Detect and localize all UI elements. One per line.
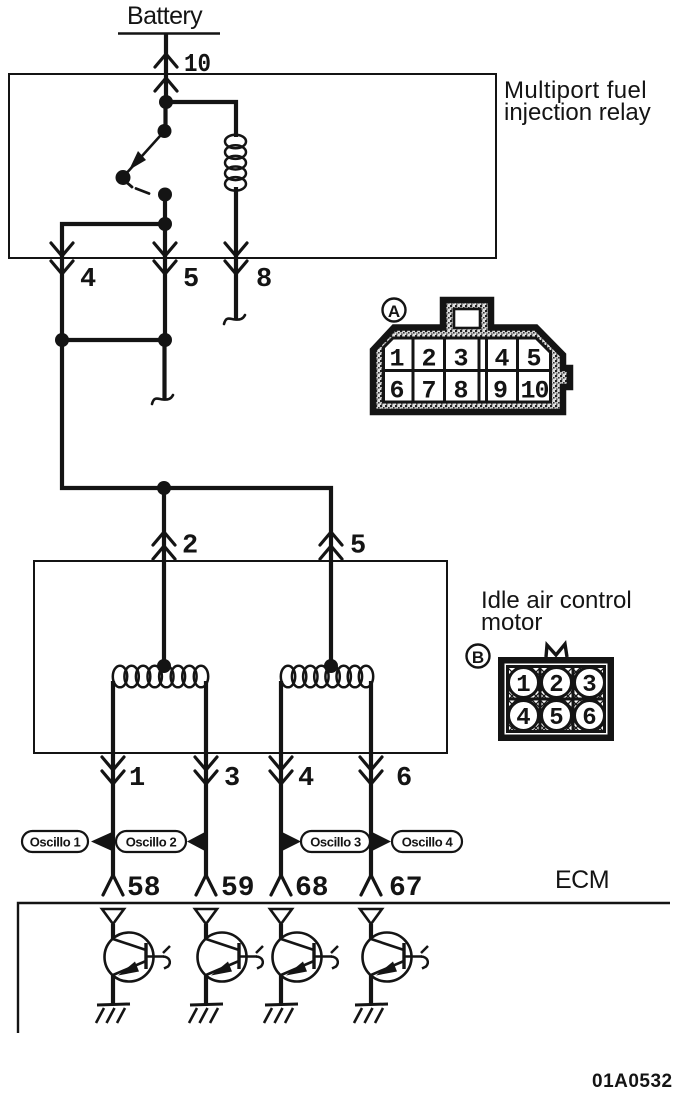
connector A key slot bbox=[454, 309, 480, 328]
wire relay pin 4 below box bbox=[60, 244, 64, 340]
IAC motor coil 2 bbox=[281, 666, 295, 688]
input triangle for Q2 bbox=[195, 909, 217, 924]
svg-text:5: 5 bbox=[526, 345, 541, 374]
svg-text:4: 4 bbox=[494, 345, 509, 374]
relay switch pivot tail bbox=[125, 181, 132, 187]
relay switch output contact bbox=[158, 188, 172, 202]
svg-text:4: 4 bbox=[298, 764, 314, 794]
svg-text:2: 2 bbox=[549, 672, 563, 699]
relay switch armature with arrow bbox=[124, 131, 165, 176]
ECM pin fork terminal 68 bbox=[271, 860, 291, 895]
svg-text:5: 5 bbox=[183, 265, 199, 295]
svg-text:A: A bbox=[388, 302, 400, 321]
connector chevrons IAC pin 4 bbox=[270, 757, 292, 770]
svg-text:01A0532: 01A0532 bbox=[592, 1071, 673, 1092]
node coil 1 centre tap bbox=[157, 659, 171, 673]
transistor Q2 bbox=[198, 924, 264, 1005]
ECM pin fork terminal 58 bbox=[103, 860, 123, 895]
node junction left y340 bbox=[55, 333, 69, 347]
wire into IAC coil 1 bbox=[162, 561, 166, 666]
svg-text:ECM: ECM bbox=[555, 866, 609, 894]
ground for Q4 bbox=[354, 1004, 388, 1023]
svg-text:Battery: Battery bbox=[127, 2, 203, 30]
svg-text:1: 1 bbox=[129, 764, 145, 794]
idle air control motor box bbox=[34, 561, 447, 753]
ground for Q3 bbox=[264, 1004, 298, 1023]
connector chevrons relay pin 8 bbox=[225, 243, 247, 256]
svg-text:3: 3 bbox=[582, 672, 596, 699]
connector B callout circle bbox=[467, 645, 490, 668]
connector chevrons IAC pin 6 bbox=[360, 757, 382, 770]
svg-text:6: 6 bbox=[389, 377, 404, 406]
node coil 2 centre tap bbox=[324, 659, 338, 673]
input triangle for Q4 bbox=[360, 909, 382, 924]
oscilloscope point label Oscillo 3 bbox=[283, 833, 301, 851]
connector B pin circles bbox=[509, 668, 539, 698]
relay box: Multiport fuel injection relay bbox=[9, 74, 496, 258]
transistor Q4 bbox=[363, 924, 429, 1005]
node junction mid y340 bbox=[158, 333, 172, 347]
wire switch to output node bbox=[163, 195, 167, 225]
wire IAC pin 6 to ECM bbox=[369, 753, 373, 876]
svg-text:4: 4 bbox=[80, 265, 96, 295]
svg-text:B: B bbox=[472, 648, 484, 667]
wire 8 termination pigtail bbox=[224, 315, 245, 324]
transistor Q3 bbox=[273, 924, 339, 1005]
connector chevrons relay pin 5 bbox=[154, 243, 176, 256]
connector chevrons IAC pin 1 bbox=[102, 757, 124, 770]
svg-text:Oscillo 3: Oscillo 3 bbox=[310, 835, 361, 850]
wire to relay pin 5 bbox=[163, 224, 167, 244]
coil 1 right leg bbox=[204, 681, 208, 753]
transistor Q1 bbox=[105, 924, 171, 1005]
wire to relay pin 4 bbox=[62, 224, 165, 244]
oscilloscope point label Oscillo 4 bbox=[373, 833, 391, 851]
input triangle for Q3 bbox=[270, 909, 292, 924]
svg-text:59: 59 bbox=[221, 873, 255, 904]
wire joining pins 4 and 5 bbox=[62, 338, 165, 342]
wire relay pin 5 below box bbox=[163, 244, 167, 340]
coil 1 left leg bbox=[111, 681, 115, 753]
ECM pin fork terminal 59 bbox=[196, 860, 216, 895]
svg-text:3: 3 bbox=[224, 764, 240, 794]
svg-text:68: 68 bbox=[295, 873, 329, 904]
oscilloscope point label Oscillo 1 bbox=[22, 831, 88, 852]
connector chevrons pin 10 bbox=[155, 54, 177, 67]
connector chevrons IAC pin 5 bbox=[320, 532, 342, 545]
svg-text:6: 6 bbox=[396, 764, 412, 794]
connector B key notch bbox=[546, 644, 567, 657]
connector B body bbox=[498, 657, 614, 741]
svg-text:58: 58 bbox=[127, 873, 161, 904]
relay switch dashed travel arc bbox=[136, 189, 149, 194]
svg-text:9: 9 bbox=[493, 377, 508, 406]
svg-text:4: 4 bbox=[516, 705, 530, 732]
wire pin5 stub down bbox=[162, 340, 166, 399]
svg-text:5: 5 bbox=[549, 705, 563, 732]
ground for Q1 bbox=[96, 1004, 130, 1023]
wire to IAC pin 2 bbox=[162, 488, 166, 561]
wire IAC pin 3 to ECM bbox=[204, 753, 208, 876]
ground for Q2 bbox=[189, 1004, 223, 1023]
connector A pin grid bbox=[384, 338, 551, 402]
ECM pin fork terminal 67 bbox=[361, 860, 381, 895]
wire IAC pin 4 to ECM bbox=[279, 753, 283, 876]
svg-text:8: 8 bbox=[256, 265, 272, 295]
svg-text:6: 6 bbox=[582, 705, 596, 732]
svg-text:motor: motor bbox=[481, 609, 542, 636]
battery terminal line bbox=[118, 32, 220, 35]
svg-text:10: 10 bbox=[520, 377, 548, 406]
wire coil to relay pin 8 bbox=[234, 187, 238, 244]
coil 2 right leg bbox=[369, 681, 373, 753]
relay switch pivot contact bbox=[116, 170, 131, 185]
relay switch fixed contact bbox=[158, 124, 172, 138]
connector chevrons IAC pin 3 bbox=[195, 757, 217, 770]
wire to IAC pin 5 bbox=[329, 530, 333, 561]
node bus junction bbox=[157, 481, 171, 495]
svg-text:Oscillo 1: Oscillo 1 bbox=[30, 835, 81, 850]
wire 5 termination pigtail bbox=[152, 395, 173, 404]
svg-text:3: 3 bbox=[453, 345, 468, 374]
ECM box outline bbox=[18, 903, 670, 1033]
connector A body bbox=[373, 300, 570, 412]
svg-text:2: 2 bbox=[421, 345, 436, 374]
bus wire from relay to idle air control motor bbox=[62, 340, 331, 530]
svg-text:Oscillo 2: Oscillo 2 bbox=[126, 835, 177, 850]
IAC motor coil 1 bbox=[113, 666, 127, 688]
connector chevrons IAC pin 2 bbox=[153, 532, 175, 545]
wire into IAC coil 2 bbox=[329, 561, 333, 666]
wire IAC pin 1 to ECM bbox=[111, 753, 115, 876]
node relay input junction bbox=[159, 95, 173, 109]
wire relay pin 8 below box bbox=[234, 244, 238, 320]
wire junction to switch contact bbox=[163, 102, 167, 131]
input triangle for Q1 bbox=[102, 909, 124, 924]
connector chevrons relay pin 4 bbox=[51, 243, 73, 256]
svg-text:8: 8 bbox=[453, 377, 468, 406]
svg-text:1: 1 bbox=[516, 672, 530, 699]
svg-text:Oscillo 4: Oscillo 4 bbox=[402, 835, 454, 850]
relay coil L1 feed wire bbox=[166, 102, 236, 137]
relay coil L1 bbox=[225, 135, 246, 149]
svg-text:injection relay: injection relay bbox=[504, 99, 651, 126]
svg-text:1: 1 bbox=[389, 345, 404, 374]
connector A callout circle bbox=[383, 299, 406, 322]
svg-text:7: 7 bbox=[421, 377, 436, 406]
coil 2 left leg bbox=[279, 681, 283, 753]
oscilloscope point label Oscillo 2 bbox=[116, 831, 186, 852]
svg-text:5: 5 bbox=[350, 532, 366, 562]
node relay output junction bbox=[158, 217, 172, 231]
svg-text:67: 67 bbox=[389, 873, 423, 904]
wire battery to relay pin 10 bbox=[164, 34, 168, 105]
svg-text:2: 2 bbox=[182, 532, 198, 562]
